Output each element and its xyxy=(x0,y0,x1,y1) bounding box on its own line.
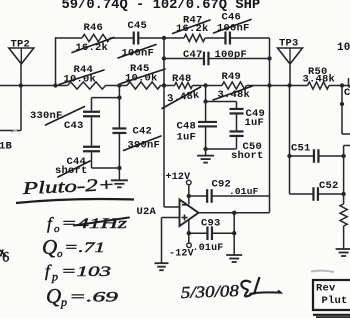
label R47 xyxy=(183,14,203,26)
svg-text:=103: =103 xyxy=(61,264,111,280)
handwritten Pluto-2+ title xyxy=(21,174,115,198)
resistor R48 xyxy=(175,83,193,89)
svg-text:10.0k: 10.0k xyxy=(64,74,97,86)
node feedback row junction xyxy=(53,83,57,87)
value R45 10.0k crossed out xyxy=(121,69,165,85)
svg-text:C47: C47 xyxy=(183,49,203,61)
wire right edge riser xyxy=(342,86,350,135)
resistor R50 xyxy=(308,82,330,89)
value C42 390nF crossed out xyxy=(124,136,162,151)
wire C52 row xyxy=(290,193,344,195)
title block Rev xyxy=(316,283,336,295)
wire C93 row xyxy=(189,232,234,234)
value C43 330nF crossed out xyxy=(30,107,85,126)
label -12V xyxy=(169,248,194,259)
svg-text:U2A: U2A xyxy=(137,206,157,218)
node C93 right junction xyxy=(232,231,236,235)
svg-text:16.2k: 16.2k xyxy=(176,23,209,35)
wire C47 row xyxy=(164,58,270,60)
svg-text:p: p xyxy=(51,270,58,284)
label C46 xyxy=(222,12,242,24)
svg-text:100nF: 100nF xyxy=(217,22,250,34)
value C92 .01uF xyxy=(229,186,259,197)
wire TP3 stem xyxy=(289,64,291,86)
wire left riser xyxy=(55,37,57,85)
label C53 partial xyxy=(344,87,350,99)
wire inverting input xyxy=(164,38,180,207)
label +12V xyxy=(166,172,191,183)
capacitor C50 xyxy=(230,131,244,136)
node C43 branch top junction xyxy=(117,95,121,99)
svg-text:C43: C43 xyxy=(64,120,84,132)
ground below C42 xyxy=(111,180,128,187)
svg-text:100nF: 100nF xyxy=(122,48,155,60)
node C48 top junction xyxy=(203,99,207,103)
test point TP3 xyxy=(278,48,303,64)
node C51 right junction xyxy=(341,154,345,158)
smudge above title block xyxy=(311,271,334,272)
wire C92 row xyxy=(189,195,270,197)
handwritten Qp = .69 xyxy=(46,284,119,309)
value R50 3.48k xyxy=(303,74,336,86)
svg-text:R48: R48 xyxy=(172,73,192,85)
node C48 bottom junction xyxy=(203,147,207,151)
svg-text:Q: Q xyxy=(42,235,57,259)
svg-text:3.48k: 3.48k xyxy=(303,74,336,86)
capacitor C46 xyxy=(225,32,230,45)
svg-text:10: 10 xyxy=(337,42,350,54)
svg-text:10.0k: 10.0k xyxy=(125,73,158,85)
label C45 xyxy=(128,20,148,32)
wire C49 C50 branch xyxy=(206,102,237,150)
label C44 xyxy=(67,156,87,168)
svg-text:C42: C42 xyxy=(133,125,153,137)
svg-text:o: o xyxy=(57,248,63,260)
test point TP2 xyxy=(9,48,34,64)
wire input 1B xyxy=(0,86,21,131)
svg-text:Q: Q xyxy=(46,284,61,308)
label C48 xyxy=(177,121,197,133)
label TP2 xyxy=(11,39,31,51)
capacitor C93 xyxy=(207,226,212,240)
capacitor C52 xyxy=(313,187,318,201)
handwritten date 5/30/08 xyxy=(180,281,239,302)
wire right edge cap stub xyxy=(349,78,350,87)
capacitor C92 xyxy=(207,189,212,203)
wire C48 branch riser xyxy=(205,86,207,150)
svg-text:C: C xyxy=(344,87,350,99)
node C43 branch bottom junction xyxy=(117,166,121,170)
ground non-inverting input xyxy=(155,263,169,270)
svg-text:C51: C51 xyxy=(291,142,311,154)
svg-text:Plut: Plut xyxy=(322,295,348,307)
power +12V terminal xyxy=(187,180,192,185)
capacitor C51 xyxy=(314,149,319,163)
node C47 row left junction xyxy=(162,56,166,60)
svg-text:=.71: =.71 xyxy=(64,240,105,256)
svg-text:R46: R46 xyxy=(84,22,104,34)
label C92 xyxy=(212,179,232,191)
wire TP2 stem xyxy=(20,64,22,86)
title block Pluto xyxy=(322,295,348,307)
handwritten fp = 103 xyxy=(45,262,111,284)
label C50 xyxy=(243,141,263,153)
pen mark near 1B corner xyxy=(11,130,17,132)
label R48 xyxy=(172,73,192,85)
title text 59/0.74Q 102/0.67Q SHP xyxy=(62,0,261,13)
wire C51 C52 left riser xyxy=(289,86,291,195)
svg-text:59/0.74Q - 102/0.67Q SHP: 59/0.74Q - 102/0.67Q SHP xyxy=(62,0,261,13)
value C50 short xyxy=(231,150,264,162)
label C42 xyxy=(133,125,153,137)
node junction top row / U2A inverting branch xyxy=(162,36,166,40)
value R46 16.2k crossed out xyxy=(72,38,114,54)
handwritten Qo = .71 xyxy=(42,235,105,260)
capacitor C42 xyxy=(112,128,126,133)
handwritten f0 = 41Hz crossed xyxy=(47,214,129,235)
capacitor C44 xyxy=(83,147,100,152)
capacitor C47 xyxy=(204,52,209,66)
svg-text:390nF: 390nF xyxy=(128,139,161,151)
value R47 16.2k crossed out xyxy=(173,20,211,35)
wire C43 C44 branch xyxy=(92,98,120,168)
value C47 100pF xyxy=(215,49,248,61)
resistor R46 xyxy=(82,34,110,41)
node R45 R48 junction xyxy=(162,83,166,87)
handwritten underline xyxy=(16,199,134,203)
wire C93 ground riser xyxy=(233,213,235,255)
node R49 feedback junction xyxy=(267,83,271,87)
wire main row xyxy=(0,85,350,87)
wire -12V supply xyxy=(188,220,190,243)
svg-text:short: short xyxy=(231,150,264,162)
capacitor C48 xyxy=(198,122,217,127)
label R50 xyxy=(308,66,328,78)
svg-text:1uF: 1uF xyxy=(245,117,265,129)
label C52 xyxy=(319,180,339,192)
label U2A xyxy=(137,206,157,218)
value R49 3.48k crossed out xyxy=(213,86,253,101)
label R44 xyxy=(74,64,94,76)
node TP2 junction xyxy=(19,83,23,87)
svg-text:C93: C93 xyxy=(201,217,221,229)
wire C48 ground stem xyxy=(205,149,207,156)
node C51 left junction xyxy=(287,154,291,158)
node TP3 junction xyxy=(287,83,291,87)
resistor R47 xyxy=(184,34,205,41)
svg-text:C52: C52 xyxy=(319,180,339,192)
svg-text:16.2k: 16.2k xyxy=(76,42,109,54)
svg-text:C45: C45 xyxy=(128,20,148,32)
node output C93 riser junction xyxy=(232,211,236,215)
handwritten 6 left margin xyxy=(0,250,11,266)
label net 1B xyxy=(0,140,13,152)
svg-text:.01uF: .01uF xyxy=(229,186,259,197)
node C52 right junction xyxy=(341,192,345,196)
label C47 xyxy=(183,49,203,61)
node C93 tap xyxy=(187,231,191,235)
label R49 xyxy=(222,71,242,83)
wire C51 row xyxy=(290,155,344,157)
ground below C93 xyxy=(226,255,242,262)
capacitor C45 xyxy=(134,32,139,45)
value C93 .01uF xyxy=(193,243,224,254)
label C49 xyxy=(246,108,266,120)
svg-text:TP3: TP3 xyxy=(279,38,299,50)
wire +12V supply xyxy=(188,185,190,205)
resistor R44 xyxy=(68,82,106,89)
capacitor C43 xyxy=(83,112,100,117)
svg-text:TP2: TP2 xyxy=(11,39,31,51)
svg-text:R49: R49 xyxy=(222,71,242,83)
resistor R45 xyxy=(127,82,161,89)
value C44 short crossed out xyxy=(55,161,90,177)
wire feedback riser xyxy=(269,38,271,213)
resistor R51 vertical xyxy=(340,204,347,226)
node C42 C43 junction xyxy=(117,83,121,87)
node R50 output junction xyxy=(340,83,344,87)
value R44 10.0k crossed out xyxy=(59,70,104,86)
op-amp U2A xyxy=(180,200,199,227)
wire U2A output row xyxy=(199,212,270,214)
node R48 R49 junction xyxy=(203,83,207,87)
node C92 tap xyxy=(187,194,191,198)
wire C42 branch riser xyxy=(118,86,120,181)
svg-text:100pF: 100pF xyxy=(215,49,248,61)
label 102 partial xyxy=(337,42,350,54)
title block box xyxy=(313,280,350,310)
power -12V terminal xyxy=(187,243,192,248)
wire top feedback row xyxy=(56,37,270,39)
svg-text:+12V: +12V xyxy=(166,172,191,183)
value C49 1uF xyxy=(245,117,265,129)
svg-text:p: p xyxy=(60,295,67,309)
svg-text:o: o xyxy=(54,223,60,235)
svg-text:Rev: Rev xyxy=(316,283,336,295)
node right edge junction xyxy=(340,102,344,106)
label R45 xyxy=(130,63,150,75)
value R48 3.48k crossed out xyxy=(162,87,201,109)
title block lower cell xyxy=(313,315,350,318)
svg-text:1B: 1B xyxy=(0,140,13,152)
value C46 100nF crossed out xyxy=(214,20,252,35)
capacitor C49 xyxy=(230,109,244,114)
value C48 1uF xyxy=(177,132,197,144)
ground right bus xyxy=(336,249,350,256)
label C93 xyxy=(201,217,221,229)
label R46 xyxy=(84,22,104,34)
node C47 row right junction xyxy=(267,56,271,60)
svg-text:3.48k: 3.48k xyxy=(218,89,251,101)
ground below C48 xyxy=(197,156,214,163)
wire right bus xyxy=(344,146,350,250)
svg-text:.01uF: .01uF xyxy=(193,243,224,254)
svg-text:-12V: -12V xyxy=(169,248,194,259)
label C51 xyxy=(291,142,311,154)
svg-text:5/30/08: 5/30/08 xyxy=(180,281,239,302)
svg-text:1uF: 1uF xyxy=(177,132,197,144)
label C43 xyxy=(64,120,84,132)
value C45 100nF crossed out xyxy=(118,45,156,60)
svg-text:=.69: =.69 xyxy=(69,290,119,306)
resistor R49 xyxy=(222,82,247,89)
svg-text:Pluto-2+: Pluto-2+ xyxy=(21,174,115,198)
handwritten signature xyxy=(241,277,280,296)
label TP3 xyxy=(279,38,299,50)
wire non-inverting input xyxy=(162,218,180,264)
